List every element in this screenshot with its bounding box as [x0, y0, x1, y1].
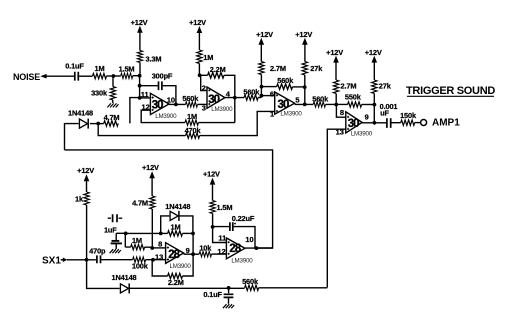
svg-text:+12V: +12V: [326, 48, 343, 57]
svg-text:1uF: 1uF: [104, 225, 117, 234]
svg-text:150k: 150k: [400, 111, 417, 120]
svg-text:1.5M: 1.5M: [217, 203, 233, 212]
svg-text:550k: 550k: [345, 93, 362, 102]
svg-text:+12V: +12V: [295, 30, 312, 39]
svg-text:1N4148: 1N4148: [68, 109, 93, 118]
svg-text:12: 12: [217, 247, 225, 256]
svg-text:1k: 1k: [75, 194, 84, 203]
svg-text:6: 6: [270, 89, 274, 98]
svg-text:1.5M: 1.5M: [119, 64, 135, 73]
svg-text:11: 11: [218, 234, 226, 243]
svg-text:560k: 560k: [312, 94, 329, 103]
svg-text:1: 1: [270, 109, 274, 118]
svg-text:TRIGGER SOUND: TRIGGER SOUND: [406, 85, 495, 97]
svg-text:28: 28: [229, 243, 241, 255]
svg-text:uF: uF: [380, 109, 389, 118]
svg-text:100k: 100k: [132, 262, 149, 271]
svg-text:1N4148: 1N4148: [112, 273, 137, 282]
svg-text:13: 13: [155, 252, 163, 261]
svg-text:LM3900: LM3900: [280, 110, 302, 117]
svg-text:LM3900: LM3900: [211, 106, 233, 113]
svg-text:0.22uF: 0.22uF: [232, 214, 255, 223]
svg-text:3: 3: [202, 104, 206, 113]
svg-text:1M: 1M: [132, 236, 142, 245]
svg-text:0.1uF: 0.1uF: [203, 290, 222, 299]
svg-text:8: 8: [340, 108, 344, 117]
svg-text:1M: 1M: [203, 53, 213, 62]
svg-text:3.3M: 3.3M: [146, 55, 162, 64]
svg-text:2.2M: 2.2M: [210, 65, 226, 74]
svg-text:8: 8: [158, 240, 162, 249]
svg-text:+12V: +12V: [256, 30, 273, 39]
svg-text:+12V: +12V: [189, 18, 206, 27]
svg-text:470k: 470k: [185, 126, 202, 135]
svg-text:+12V: +12V: [365, 48, 382, 57]
svg-text:560k: 560k: [182, 94, 199, 103]
svg-text:560k: 560k: [277, 76, 294, 85]
svg-text:SX1: SX1: [42, 255, 61, 266]
svg-text:10: 10: [167, 95, 175, 104]
svg-text:560k: 560k: [242, 277, 259, 286]
svg-text:LM3900: LM3900: [155, 113, 177, 120]
svg-text:LM3900: LM3900: [231, 258, 253, 265]
svg-text:0.1uF: 0.1uF: [65, 62, 84, 71]
svg-text:560k: 560k: [243, 87, 260, 96]
svg-text:2.7M: 2.7M: [270, 64, 286, 73]
svg-text:2: 2: [202, 83, 206, 92]
svg-text:330k: 330k: [91, 89, 108, 98]
svg-text:+12V: +12V: [131, 18, 148, 27]
svg-text:28: 28: [168, 249, 180, 261]
svg-text:+12V: +12V: [77, 166, 94, 175]
svg-text:10k: 10k: [199, 244, 212, 253]
svg-text:LM3900: LM3900: [351, 130, 373, 137]
svg-text:AMP1: AMP1: [432, 118, 460, 129]
svg-text:+12V: +12V: [203, 169, 220, 178]
svg-text:30: 30: [278, 99, 289, 111]
svg-text:11: 11: [141, 90, 149, 99]
svg-text:300pF: 300pF: [152, 71, 173, 80]
svg-text:9: 9: [365, 112, 369, 121]
svg-text:4.7M: 4.7M: [104, 113, 120, 122]
svg-text:27k: 27k: [310, 64, 323, 73]
svg-text:10: 10: [245, 235, 253, 244]
svg-text:4.7M: 4.7M: [132, 199, 148, 208]
svg-text:2.2M: 2.2M: [168, 278, 184, 287]
svg-text:2.7M: 2.7M: [341, 82, 357, 91]
svg-text:27k: 27k: [379, 82, 392, 91]
svg-text:30: 30: [348, 118, 359, 130]
svg-text:5: 5: [295, 96, 299, 105]
svg-text:+12V: +12V: [142, 163, 159, 172]
svg-text:1M: 1M: [95, 64, 105, 73]
svg-text:LM3900: LM3900: [170, 263, 192, 270]
svg-text:NOISE: NOISE: [13, 72, 40, 82]
svg-text:470p: 470p: [89, 246, 106, 255]
svg-text:1M: 1M: [171, 222, 181, 231]
svg-text:12: 12: [142, 102, 150, 111]
svg-text:1M: 1M: [187, 112, 197, 121]
svg-text:1N4148: 1N4148: [165, 202, 190, 211]
